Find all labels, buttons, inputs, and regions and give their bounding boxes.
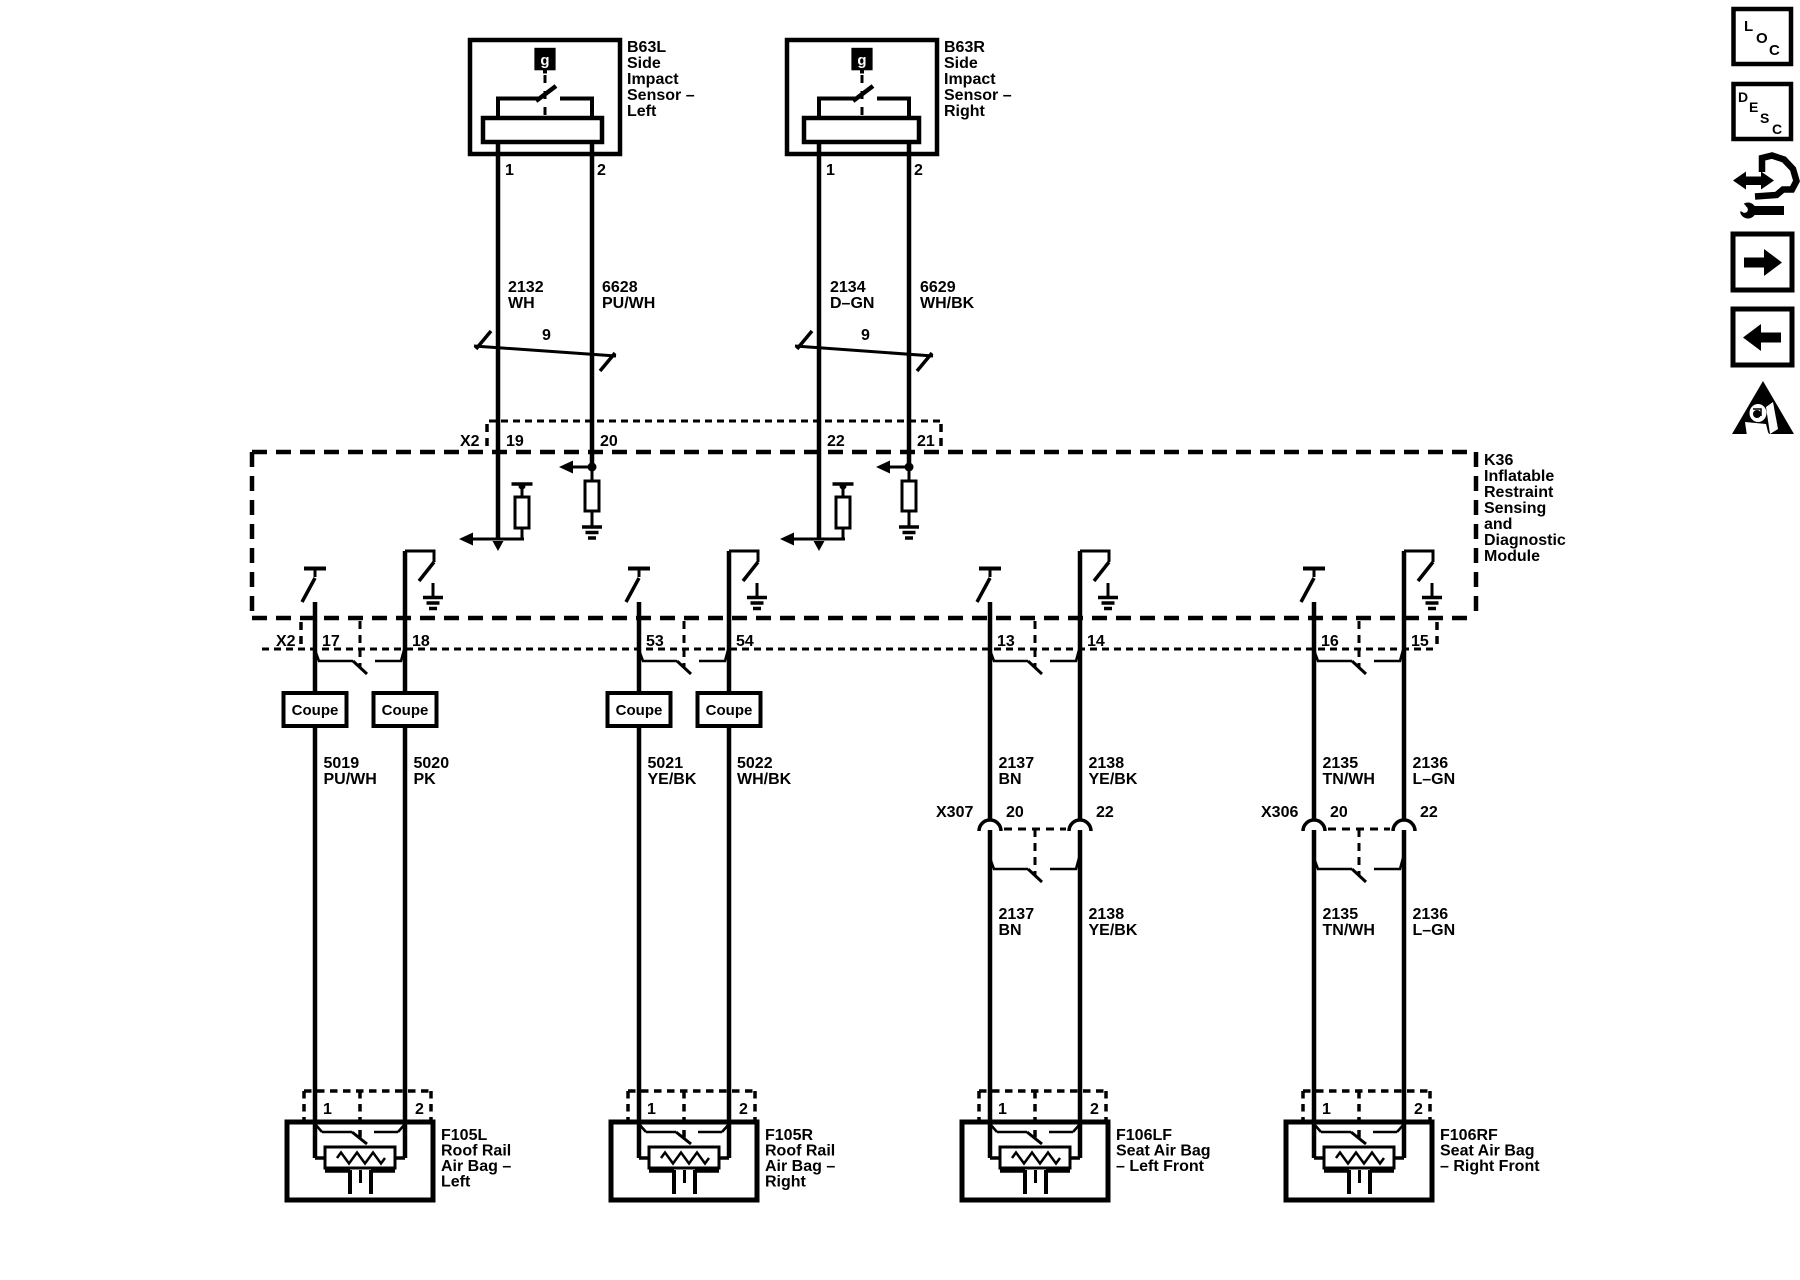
svg-text:Coupe: Coupe xyxy=(706,702,753,719)
svg-text:WH/BK: WH/BK xyxy=(920,295,975,312)
wire 2135 TN/WH X306 to F106RF xyxy=(1312,830,1317,1158)
B63L g-symbol xyxy=(534,48,555,74)
wire K36 pin54 to Coupe xyxy=(727,551,732,693)
svg-text:Seat Air Bag: Seat Air Bag xyxy=(1116,1143,1211,1160)
F105L connector dashed box xyxy=(304,1091,431,1140)
shorting bar at X2 pins 13/14 xyxy=(990,621,1079,674)
svg-text:C: C xyxy=(1772,121,1782,137)
shorting bar at X307 xyxy=(990,829,1079,882)
wire 2138 YE/BK X307 to F106LF xyxy=(1078,830,1083,1158)
internal resistor at x=522 xyxy=(512,483,533,540)
shorting bar at X2 pins 17/18 xyxy=(315,621,404,674)
airbag warning triangle xyxy=(1732,381,1794,438)
svg-text:L–GN: L–GN xyxy=(1413,922,1456,939)
wire 5019 PU/WH Coupe to F105L xyxy=(313,726,318,1158)
svg-text:Air Bag –: Air Bag – xyxy=(441,1158,511,1175)
Coupe connector box 1 xyxy=(284,693,347,726)
svg-text:Air Bag –: Air Bag – xyxy=(765,1158,835,1175)
Coupe connector box 2 xyxy=(374,693,437,726)
F105R component box xyxy=(611,1122,757,1200)
LOC icon box xyxy=(1734,9,1792,64)
svg-text:Impact: Impact xyxy=(627,71,679,88)
svg-text:BN: BN xyxy=(999,922,1022,939)
F106LF shorting clip xyxy=(990,1124,1080,1144)
svg-text:B63R: B63R xyxy=(944,39,985,56)
connector X2 top row dotted line xyxy=(489,420,941,423)
connector X2 bottom row dotted line xyxy=(262,648,1437,651)
svg-text:2137: 2137 xyxy=(999,906,1035,923)
svg-text:Right: Right xyxy=(944,103,986,120)
wire 6629 WH/BK (B63R pin2 to K36 pin21) xyxy=(907,142,912,467)
svg-text:2132: 2132 xyxy=(508,279,544,296)
F106RF initiator legs xyxy=(1324,1170,1394,1194)
B63L internal switch xyxy=(498,75,592,119)
inline connector X306 xyxy=(1261,804,1438,821)
svg-text:WH: WH xyxy=(508,295,535,312)
svg-text:Sensor –: Sensor – xyxy=(944,87,1012,104)
K36 driver switch pin 53 xyxy=(626,569,650,603)
X306 dashed link xyxy=(1328,828,1390,831)
svg-text:17: 17 xyxy=(322,633,340,650)
svg-text:F105R: F105R xyxy=(765,1127,813,1144)
X2 top row left cap xyxy=(485,424,489,451)
K36 ground switch pin 18 xyxy=(405,550,434,582)
wire label 2134 D-GN xyxy=(830,279,874,312)
X307 dashed link xyxy=(1004,828,1066,831)
svg-text:TN/WH: TN/WH xyxy=(1323,922,1375,939)
svg-text:20: 20 xyxy=(1006,804,1024,821)
ground symbol near pin 14 xyxy=(1098,583,1118,609)
svg-text:F106LF: F106LF xyxy=(1116,1127,1172,1144)
svg-text:2: 2 xyxy=(914,162,923,179)
svg-text:1: 1 xyxy=(505,162,514,179)
svg-text:1: 1 xyxy=(826,162,835,179)
B63R internal switch xyxy=(819,75,909,119)
X2 bottom row right cap xyxy=(1435,622,1439,650)
F106RF connector dashed box xyxy=(1303,1091,1430,1140)
svg-text:Inflatable: Inflatable xyxy=(1484,468,1554,485)
X306 left terminal arc xyxy=(1303,820,1325,831)
wire label 2138 (lower) xyxy=(1089,906,1138,939)
F105L squib resistor xyxy=(315,1147,405,1168)
diagnostic arrows icon xyxy=(1733,156,1797,197)
K36 driver switch pin 16 xyxy=(1301,569,1325,603)
svg-text:2138: 2138 xyxy=(1089,906,1125,923)
svg-text:BN: BN xyxy=(999,771,1022,788)
svg-text:2136: 2136 xyxy=(1413,906,1449,923)
K36 module dashed boundary xyxy=(252,452,1476,618)
wire 2137 BN K36 pin13 to X307 xyxy=(988,602,993,820)
wire 5020 PK Coupe to F105L xyxy=(403,726,408,1158)
svg-text:YE/BK: YE/BK xyxy=(648,771,697,788)
F106LF label text xyxy=(1116,1127,1211,1175)
svg-text:20: 20 xyxy=(600,433,618,450)
wire label 6629 WH/BK xyxy=(920,279,975,312)
DESC icon box xyxy=(1734,84,1792,139)
svg-text:PU/WH: PU/WH xyxy=(602,295,655,312)
shorting bar at X2 pins 16/15 xyxy=(1314,621,1403,674)
F105L shorting clip xyxy=(315,1124,405,1144)
svg-text:TN/WH: TN/WH xyxy=(1323,771,1375,788)
internal termination with arrow at x=498 xyxy=(459,533,524,552)
F105R label text xyxy=(765,1127,835,1191)
svg-text:1: 1 xyxy=(323,1101,332,1118)
svg-text:L–GN: L–GN xyxy=(1413,771,1456,788)
svg-text:D: D xyxy=(1738,89,1748,105)
svg-text:PU/WH: PU/WH xyxy=(324,771,377,788)
svg-text:1: 1 xyxy=(647,1101,656,1118)
svg-text:Side: Side xyxy=(627,55,661,72)
svg-text:16: 16 xyxy=(1321,633,1339,650)
K36 ground switch pin 15 xyxy=(1404,550,1433,582)
X306 right terminal arc xyxy=(1393,820,1415,831)
svg-text:2: 2 xyxy=(1414,1101,1423,1118)
svg-text:Roof Rail: Roof Rail xyxy=(441,1143,511,1160)
wire 6628 PU/WH (B63L pin2 to K36 pin20) xyxy=(590,142,595,467)
svg-text:14: 14 xyxy=(1087,633,1105,650)
F105L label text xyxy=(441,1127,511,1191)
wire label 2136 (lower) xyxy=(1413,906,1456,939)
svg-text:Left: Left xyxy=(441,1174,471,1191)
svg-text:Diagnostic: Diagnostic xyxy=(1484,532,1566,549)
F105R shorting clip xyxy=(639,1124,729,1144)
svg-text:2138: 2138 xyxy=(1089,755,1125,772)
wire label 2136 xyxy=(1413,755,1456,788)
svg-text:YE/BK: YE/BK xyxy=(1089,771,1138,788)
svg-text:53: 53 xyxy=(646,633,664,650)
svg-text:22: 22 xyxy=(1420,804,1438,821)
wire 5021 YE/BK Coupe to F105R xyxy=(637,726,642,1158)
svg-text:Seat Air Bag: Seat Air Bag xyxy=(1440,1143,1535,1160)
svg-text:Left: Left xyxy=(627,103,657,120)
svg-text:54: 54 xyxy=(736,633,754,650)
internal ground at x=909 xyxy=(899,527,919,538)
svg-text:L: L xyxy=(1744,18,1753,35)
svg-text:20: 20 xyxy=(1330,804,1348,821)
F105R initiator legs xyxy=(649,1170,719,1194)
svg-text:5021: 5021 xyxy=(648,755,684,772)
F106RF shorting clip xyxy=(1314,1124,1404,1144)
svg-text:2: 2 xyxy=(597,162,606,179)
K36 ground switch pin 14 xyxy=(1080,550,1109,582)
svg-text:E: E xyxy=(1749,99,1758,115)
ground symbol near pin 54 xyxy=(747,583,767,609)
wrench icon xyxy=(1732,198,1784,219)
svg-text:Coupe: Coupe xyxy=(382,702,429,719)
harness 9 marker across wires (right) xyxy=(795,327,933,371)
wire label 2135 xyxy=(1323,755,1375,788)
svg-text:D–GN: D–GN xyxy=(830,295,874,312)
svg-text:Coupe: Coupe xyxy=(616,702,663,719)
wire K36 pin53 to Coupe xyxy=(637,602,642,693)
svg-text:Side: Side xyxy=(944,55,978,72)
wire 2136 L-GN X306 to F106RF xyxy=(1402,830,1407,1158)
K36 driver switch pin 13 xyxy=(977,569,1001,603)
forward arrow icon xyxy=(1733,234,1792,290)
internal arrow junction at x=909 xyxy=(876,461,914,474)
internal resistor at x=843 xyxy=(833,483,854,540)
svg-text:18: 18 xyxy=(412,633,430,650)
F106RF squib resistor xyxy=(1314,1147,1404,1168)
svg-text:2: 2 xyxy=(739,1101,748,1118)
F105R squib resistor xyxy=(639,1147,729,1168)
X2 top row right cap xyxy=(939,424,943,451)
svg-text:O: O xyxy=(1756,30,1768,47)
back arrow icon xyxy=(1733,309,1792,365)
svg-text:g: g xyxy=(857,52,866,69)
wire 2138 YE/BK K36 pin14 to X307 xyxy=(1078,551,1083,820)
svg-text:5019: 5019 xyxy=(324,755,360,772)
X2 bottom row left cap xyxy=(299,622,303,647)
svg-text:Coupe: Coupe xyxy=(292,702,339,719)
right side impact sensor box B63R xyxy=(787,40,937,154)
F106RF label text xyxy=(1440,1127,1540,1175)
wire label 2137 xyxy=(999,755,1035,788)
B63R connector bar xyxy=(804,118,919,142)
svg-text:15: 15 xyxy=(1411,633,1429,650)
svg-text:B63L: B63L xyxy=(627,39,666,56)
F106LF squib resistor xyxy=(990,1147,1080,1168)
wire label 5020 xyxy=(414,755,450,788)
wire label 2137 (lower) xyxy=(999,906,1035,939)
svg-text:– Left Front: – Left Front xyxy=(1116,1158,1205,1175)
svg-text:1: 1 xyxy=(1322,1101,1331,1118)
ground symbol near pin 18 xyxy=(423,583,443,609)
shorting bar at X2 pins 53/54 xyxy=(639,621,728,674)
svg-text:Sensor –: Sensor – xyxy=(627,87,695,104)
svg-text:Sensing: Sensing xyxy=(1484,500,1546,517)
svg-text:2135: 2135 xyxy=(1323,755,1359,772)
X307 right terminal arc xyxy=(1069,820,1091,831)
svg-text:and: and xyxy=(1484,516,1512,533)
svg-text:YE/BK: YE/BK xyxy=(1089,922,1138,939)
ground symbol near pin 15 xyxy=(1422,583,1442,609)
svg-text:9: 9 xyxy=(861,327,870,344)
B63L label text xyxy=(627,39,695,120)
svg-text:C: C xyxy=(1769,42,1780,59)
wire 5022 WH/BK Coupe to F105R xyxy=(727,726,732,1158)
svg-text:2135: 2135 xyxy=(1323,906,1359,923)
harness 9 marker across wires (left) xyxy=(474,327,616,371)
wire 2136 L-GN K36 pin15 to X306 xyxy=(1402,551,1407,820)
svg-text:Impact: Impact xyxy=(944,71,996,88)
svg-text:22: 22 xyxy=(827,433,845,450)
svg-text:X2: X2 xyxy=(460,433,480,450)
B63R label text xyxy=(944,39,1012,120)
left side impact sensor box B63L xyxy=(470,40,620,154)
wire K36 pin17 to Coupe xyxy=(313,602,318,693)
B63R g-symbol xyxy=(851,48,872,74)
internal ground at x=592 xyxy=(582,527,602,538)
svg-text:– Right Front: – Right Front xyxy=(1440,1158,1540,1175)
F105L component box xyxy=(287,1122,433,1200)
F106LF connector dashed box xyxy=(979,1091,1106,1140)
svg-text:X306: X306 xyxy=(1261,804,1298,821)
svg-text:X2: X2 xyxy=(276,633,296,650)
svg-text:22: 22 xyxy=(1096,804,1114,821)
svg-text:2134: 2134 xyxy=(830,279,866,296)
svg-text:K36: K36 xyxy=(1484,452,1513,469)
svg-text:6629: 6629 xyxy=(920,279,956,296)
wire 2134 D-GN (B63R pin1 to K36 pin22) xyxy=(817,142,822,539)
F105R connector dashed box xyxy=(628,1091,755,1140)
svg-text:2136: 2136 xyxy=(1413,755,1449,772)
wire label 5019 xyxy=(324,755,377,788)
X307 left terminal arc xyxy=(979,820,1001,831)
wire label 2135 (lower) xyxy=(1323,906,1375,939)
wire label 5022 xyxy=(737,755,792,788)
svg-text:19: 19 xyxy=(506,433,524,450)
internal resistor at x=592 xyxy=(585,467,599,526)
svg-text:X307: X307 xyxy=(936,804,973,821)
svg-text:PK: PK xyxy=(414,771,437,788)
svg-text:Restraint: Restraint xyxy=(1484,484,1554,501)
wire label 2132 WH xyxy=(508,279,544,312)
inline connector X307 xyxy=(936,804,1114,821)
svg-text:g: g xyxy=(540,52,549,69)
svg-text:F105L: F105L xyxy=(441,1127,487,1144)
K36 ground switch pin 54 xyxy=(729,550,758,582)
F106LF initiator legs xyxy=(1000,1170,1070,1194)
svg-text:21: 21 xyxy=(917,433,935,450)
svg-text:9: 9 xyxy=(542,327,551,344)
internal resistor at x=909 xyxy=(902,467,916,526)
svg-text:1: 1 xyxy=(998,1101,1007,1118)
svg-text:Module: Module xyxy=(1484,548,1540,565)
svg-text:5020: 5020 xyxy=(414,755,450,772)
wire 2137 BN X307 to F106LF xyxy=(988,830,993,1158)
K36 driver switch pin 17 xyxy=(302,569,326,603)
wire label 5021 xyxy=(648,755,697,788)
B63L connector bar xyxy=(483,118,602,142)
svg-text:2: 2 xyxy=(415,1101,424,1118)
svg-text:S: S xyxy=(1760,110,1769,126)
svg-text:5022: 5022 xyxy=(737,755,773,772)
internal arrow junction at x=592 xyxy=(559,461,597,474)
F106RF component box xyxy=(1286,1122,1432,1200)
shorting bar at X306 xyxy=(1314,829,1403,882)
K36 module label xyxy=(1484,452,1566,565)
wire label 2138 xyxy=(1089,755,1138,788)
Coupe connector box 4 xyxy=(698,693,761,726)
svg-text:Roof Rail: Roof Rail xyxy=(765,1143,835,1160)
internal termination with arrow at x=819 xyxy=(780,533,845,552)
F106LF component box xyxy=(962,1122,1108,1200)
F105L initiator legs xyxy=(325,1170,395,1194)
wire 2132 WH (B63L pin1 to K36 pin19) xyxy=(496,142,501,539)
svg-text:6628: 6628 xyxy=(602,279,638,296)
wire 2135 TN/WH K36 pin16 to X306 xyxy=(1312,602,1317,820)
svg-text:2: 2 xyxy=(1090,1101,1099,1118)
Coupe connector box 3 xyxy=(608,693,671,726)
svg-text:Right: Right xyxy=(765,1174,807,1191)
svg-text:F106RF: F106RF xyxy=(1440,1127,1498,1144)
svg-text:2137: 2137 xyxy=(999,755,1035,772)
wire K36 pin18 to Coupe xyxy=(403,551,408,693)
svg-text:WH/BK: WH/BK xyxy=(737,771,792,788)
wire label 6628 PU/WH xyxy=(602,279,655,312)
svg-text:13: 13 xyxy=(997,633,1015,650)
